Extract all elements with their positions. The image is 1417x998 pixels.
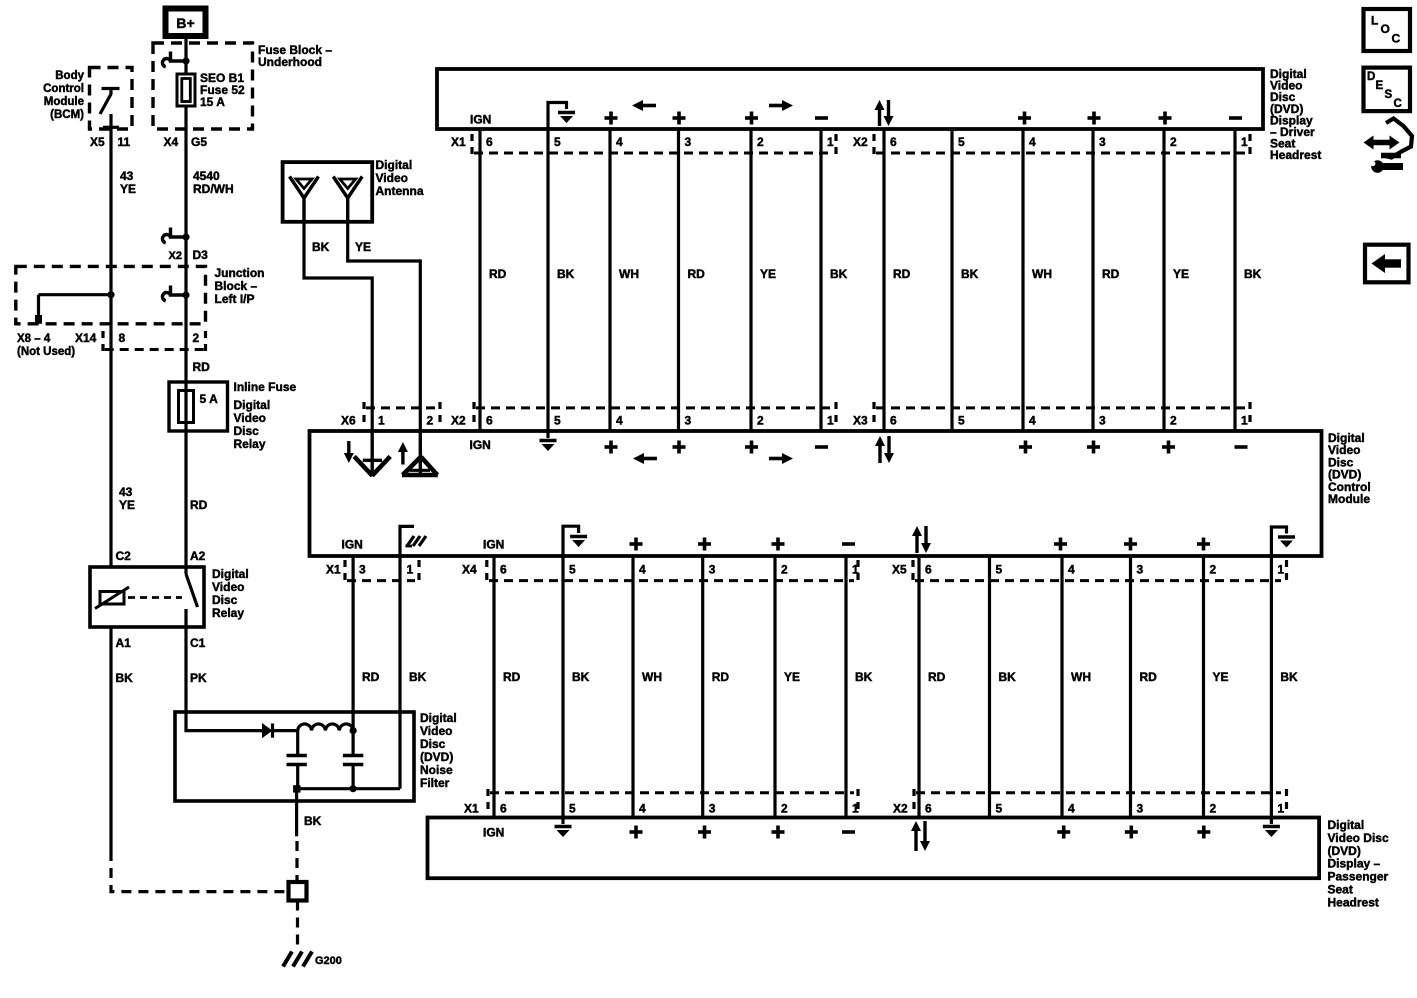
svg-text:(Not Used): (Not Used) (17, 346, 75, 358)
relay switch contact blade (186, 567, 198, 627)
svg-text:A1: A1 (116, 636, 132, 650)
svg-text:5 A: 5 A (200, 392, 219, 406)
in-line connector hook inside fuse block (162, 52, 189, 67)
svg-text:6: 6 (486, 414, 493, 428)
passenger display connector X2 dashed line (916, 791, 1281, 794)
svg-text:PK: PK (190, 671, 207, 685)
svg-text:RD: RD (893, 267, 911, 281)
svg-text:X3: X3 (853, 414, 868, 428)
junction block label (215, 266, 265, 306)
svg-text:YE: YE (1213, 670, 1229, 684)
svg-text:Filter: Filter (420, 776, 450, 790)
wire BK noise filter output (295, 789, 298, 837)
svg-text:YE: YE (1173, 267, 1189, 281)
svg-text:Disc: Disc (420, 737, 446, 751)
svg-text:RD: RD (193, 360, 211, 374)
svg-text:Module: Module (44, 96, 84, 108)
junction dot on rail (350, 785, 357, 792)
LOC icon box (1364, 9, 1411, 51)
svg-text:E: E (1376, 80, 1384, 92)
svg-text:(DVD): (DVD) (420, 750, 453, 764)
svg-text:5: 5 (958, 135, 965, 149)
relay pin labels A1 C1 (116, 636, 206, 650)
svg-text:1: 1 (827, 135, 834, 149)
svg-text:Inline Fuse: Inline Fuse (234, 380, 297, 394)
svg-text:4: 4 (616, 135, 623, 149)
svg-text:X1: X1 (326, 563, 341, 577)
noise filter label (420, 711, 457, 790)
wire RD module X1-3 to noise filter (352, 556, 355, 731)
svg-text:Body: Body (55, 70, 84, 82)
ground symbol in passenger display X1-5 (555, 818, 572, 838)
svg-text:X4: X4 (462, 563, 477, 577)
svg-text:BK: BK (304, 814, 322, 828)
svg-text:5: 5 (569, 563, 576, 577)
relay coil to contact dashed link (128, 596, 182, 599)
svg-text:BK: BK (961, 267, 979, 281)
svg-text:X5: X5 (90, 135, 105, 149)
ground symbol module bottom X5-1 (1271, 527, 1295, 556)
ground G200 (283, 952, 312, 967)
svg-text:2: 2 (1170, 414, 1177, 428)
control module connector X5 dashed line (915, 579, 1281, 582)
svg-text:Digital: Digital (212, 567, 249, 581)
ground symbol in driver display (548, 103, 575, 130)
svg-text:BK: BK (1280, 670, 1298, 684)
ground symbol in passenger display X2-1 (1263, 818, 1280, 838)
digital video disc relay box (90, 567, 204, 627)
svg-text:43: 43 (119, 485, 133, 499)
svg-text:1: 1 (407, 563, 414, 577)
svg-text:3: 3 (1137, 802, 1144, 816)
switch inside BCM (100, 89, 120, 128)
capacitor 2 in noise filter (343, 731, 363, 789)
svg-text:RD: RD (712, 670, 730, 684)
svg-text:Seat: Seat (1328, 883, 1353, 897)
passenger display connector X2 labels (893, 789, 1287, 816)
svg-text:2: 2 (427, 414, 434, 428)
svg-text:C: C (1394, 98, 1402, 110)
relay coil (95, 587, 129, 609)
in-line connector hook inside junction block (162, 286, 189, 301)
svg-text:(DVD): (DVD) (1328, 844, 1361, 858)
svg-text:5: 5 (569, 802, 576, 816)
digital video disc display driver seat headrest box (437, 69, 1263, 129)
svg-text:6: 6 (486, 135, 493, 149)
noise filter ground rail (297, 787, 400, 790)
control module connector X2 dashed line (476, 406, 832, 409)
svg-text:Disc: Disc (212, 593, 238, 607)
plus minus symbols in driver display X2 (1018, 112, 1242, 125)
svg-text:Digital: Digital (1328, 818, 1365, 832)
control module connector X3 dashed line (876, 406, 1246, 409)
in-line connector X2 D3 (162, 228, 189, 243)
svg-text:G5: G5 (191, 135, 207, 149)
svg-text:C: C (1392, 32, 1401, 46)
svg-text:3: 3 (685, 414, 692, 428)
svg-text:YE: YE (760, 267, 776, 281)
svg-text:5: 5 (554, 414, 561, 428)
svg-text:X2: X2 (451, 414, 466, 428)
svg-text:6: 6 (890, 414, 897, 428)
driver display connector X2 labels (853, 134, 1250, 154)
svg-text:3: 3 (1137, 563, 1144, 577)
junction block left I/P dashed box (16, 266, 206, 323)
svg-text:4: 4 (1068, 563, 1075, 577)
svg-text:3: 3 (359, 563, 366, 577)
svg-text:Headrest: Headrest (1270, 148, 1321, 162)
svg-text:Relay: Relay (212, 606, 244, 620)
svg-text:C1: C1 (190, 636, 206, 650)
svg-text:BK: BK (409, 670, 427, 684)
control module connector X6 labels (341, 402, 440, 428)
svg-text:1: 1 (1241, 135, 1248, 149)
wires driver display to control module (480, 129, 1235, 431)
relay label (212, 567, 249, 620)
svg-text:4: 4 (639, 802, 646, 816)
wire BK from relay A1 down (109, 627, 112, 851)
svg-text:IGN: IGN (470, 438, 491, 452)
B+ battery feed box (166, 9, 206, 37)
digital video antenna box (283, 162, 373, 222)
svg-text:RD/WH: RD/WH (193, 182, 234, 196)
svg-text:X2: X2 (893, 802, 908, 816)
svg-text:O: O (1381, 22, 1390, 36)
passenger seat headrest display label (1328, 818, 1389, 909)
plus minus symbols in driver display X1 (605, 112, 829, 125)
svg-text:6: 6 (925, 563, 932, 577)
svg-text:5: 5 (996, 563, 1003, 577)
svg-text:X2: X2 (853, 135, 868, 149)
svg-text:15 A: 15 A (200, 95, 225, 109)
inline fuse 5A digital video disc relay box (169, 382, 228, 431)
plus symbols passenger display X2 (1057, 826, 1210, 839)
svg-text:4540: 4540 (193, 169, 220, 183)
dashed wire BK to splice square (295, 841, 298, 882)
inline fuse label (234, 380, 297, 451)
svg-text:Block –: Block – (215, 279, 258, 293)
svg-text:3: 3 (709, 802, 716, 816)
svg-text:6: 6 (925, 802, 932, 816)
plus minus symbols passenger display X1 (630, 826, 856, 839)
svg-text:1: 1 (1241, 414, 1248, 428)
svg-text:RD: RD (362, 670, 380, 684)
svg-text:Antenna: Antenna (376, 184, 424, 198)
svg-text:RD: RD (190, 498, 208, 512)
svg-text:1: 1 (827, 414, 834, 428)
plus minus symbols module top X2 (605, 441, 829, 454)
svg-text:YE: YE (119, 498, 135, 512)
svg-text:RD: RD (1102, 267, 1120, 281)
svg-text:BK: BK (572, 670, 590, 684)
control module connector X2 labels (451, 402, 836, 428)
svg-text:BK: BK (1244, 267, 1262, 281)
control module connector X4 labels (462, 560, 859, 580)
right arrow module top (769, 453, 793, 464)
svg-text:RD: RD (928, 670, 946, 684)
fuse SEO B1 value label (200, 71, 245, 109)
wire label 43 YE lower (119, 485, 135, 512)
relay pin labels C2 A2 (116, 549, 206, 563)
svg-text:4: 4 (1029, 414, 1036, 428)
svg-text:Passenger: Passenger (1328, 870, 1389, 884)
svg-text:RD: RD (489, 267, 507, 281)
svg-text:D3: D3 (193, 248, 209, 262)
wire YE antenna to module X6-2 (348, 222, 421, 431)
control module connector X1 labels (326, 560, 419, 580)
svg-text:RD: RD (1140, 670, 1158, 684)
svg-text:2: 2 (757, 135, 764, 149)
svg-text:BK: BK (855, 670, 873, 684)
svg-text:Video: Video (376, 171, 408, 185)
svg-text:WH: WH (619, 267, 639, 281)
svg-text:2: 2 (757, 414, 764, 428)
svg-text:YE: YE (784, 670, 800, 684)
back arrow icon box (1365, 245, 1409, 283)
svg-text:2: 2 (781, 802, 788, 816)
svg-text:IGN: IGN (483, 826, 504, 840)
driver display connector X1 dashed line (474, 152, 832, 155)
junction dot inductor to RD wire (350, 727, 357, 734)
svg-text:X4: X4 (164, 135, 179, 149)
digital video disc DVD noise filter box (175, 712, 414, 801)
svg-text:X6: X6 (341, 414, 356, 428)
wire 43 YE from BCM down to relay C2 (109, 114, 112, 567)
svg-text:WH: WH (1032, 267, 1052, 281)
wire PK from relay C1 into noise filter (186, 627, 262, 731)
svg-text:Control: Control (43, 83, 84, 95)
svg-text:3: 3 (685, 135, 692, 149)
fuse SEO B1 Fuse 52 15 A (177, 74, 195, 106)
svg-text:Relay: Relay (234, 437, 266, 451)
svg-text:D: D (1367, 71, 1375, 83)
capacitor 1 in noise filter (287, 731, 307, 789)
svg-text:Digital: Digital (234, 398, 271, 412)
up down arrows passenger display (911, 821, 930, 851)
svg-text:BK: BK (999, 670, 1017, 684)
junction block connector dashed line (103, 331, 206, 351)
svg-text:4: 4 (616, 414, 623, 428)
BCM label (43, 70, 84, 121)
svg-text:Headrest: Headrest (1328, 895, 1379, 909)
svg-text:11: 11 (118, 135, 131, 149)
chassis ground symbol module bottom (400, 526, 426, 556)
svg-text:X8 – 4: X8 – 4 (17, 333, 51, 345)
junction square on rail (293, 785, 300, 792)
svg-text:A2: A2 (190, 549, 206, 563)
svg-text:Display –: Display – (1328, 857, 1381, 871)
right arrow in driver display (769, 100, 793, 111)
wire 4540 RD/WH from fuse down to relay A2 (184, 106, 187, 567)
svg-text:BK: BK (830, 267, 848, 281)
svg-text:1: 1 (378, 414, 385, 428)
passenger display connector X1 labels (464, 789, 859, 816)
branch wire to X8-4 not used (39, 295, 112, 324)
svg-text:Disc: Disc (234, 424, 260, 438)
up down arrows module top (875, 436, 894, 463)
ground symbol in module top (540, 431, 557, 451)
svg-text:YE: YE (120, 182, 136, 196)
wire color labels lower harness (362, 670, 1298, 684)
junction dot on 43 YE wire (107, 291, 114, 298)
svg-text:1: 1 (1277, 563, 1284, 577)
svg-text:Digital: Digital (420, 711, 457, 725)
svg-text:Underhood: Underhood (258, 55, 322, 69)
svg-text:Module: Module (1328, 492, 1370, 506)
antenna label (376, 158, 424, 198)
svg-text:RD: RD (688, 267, 706, 281)
antenna output up arrow and triangle in module (398, 431, 438, 475)
svg-text:Left I/P: Left I/P (215, 292, 255, 306)
diode in noise filter (262, 723, 298, 738)
svg-text:6: 6 (500, 563, 507, 577)
svg-text:Video Disc: Video Disc (1328, 831, 1389, 845)
svg-text:3: 3 (709, 563, 716, 577)
svg-text:4: 4 (1068, 802, 1075, 816)
digital video disc display passenger seat headrest box (428, 818, 1320, 879)
DESC icon box (1364, 68, 1411, 112)
driver seat headrest display label (1270, 67, 1321, 162)
svg-text:Digital: Digital (376, 158, 413, 172)
svg-text:X5: X5 (892, 563, 907, 577)
svg-text:2: 2 (1170, 135, 1177, 149)
control module connector X6 dashed line (366, 406, 436, 409)
svg-text:4: 4 (639, 563, 646, 577)
svg-text:C2: C2 (116, 549, 132, 563)
svg-text:L: L (1371, 14, 1378, 28)
left arrow module top (633, 453, 657, 464)
svg-text:X2: X2 (169, 250, 182, 262)
wire label 43 YE upper (120, 169, 136, 196)
svg-text:1: 1 (1277, 802, 1284, 816)
dashed wire BK to splice (111, 851, 286, 892)
fuse block underhood dashed box (153, 43, 253, 129)
svg-text:IGN: IGN (470, 113, 491, 127)
svg-text:43: 43 (120, 169, 134, 183)
svg-text:(BCM): (BCM) (50, 109, 84, 121)
wire BK antenna to module X6-1 (304, 222, 372, 431)
left arrow in driver display (632, 100, 656, 111)
wire labels BK YE antenna leads (312, 240, 371, 254)
svg-text:IGN: IGN (483, 538, 504, 552)
svg-text:4: 4 (1029, 135, 1036, 149)
control module connector X1 dashed line (347, 579, 415, 582)
svg-text:2: 2 (1210, 802, 1217, 816)
antenna input down arrow and funnel in module (344, 431, 390, 476)
plus minus symbols module bottom X4 (630, 538, 856, 551)
plus symbols module bottom X5 (1054, 538, 1210, 551)
svg-text:2: 2 (1210, 563, 1217, 577)
svg-text:8: 8 (119, 331, 126, 345)
wire label 4540 RD/WH (193, 169, 234, 196)
plus minus symbols module top X3 (1019, 441, 1248, 454)
wire B+ to fuse SEO B1 (184, 35, 187, 74)
svg-text:Video: Video (420, 724, 452, 738)
svg-text:G200: G200 (315, 955, 342, 967)
svg-text:B+: B+ (176, 15, 194, 31)
svg-text:5: 5 (958, 414, 965, 428)
wire color labels upper harness (489, 267, 1262, 281)
control module connector X4 dashed line (489, 579, 854, 582)
svg-text:Noise: Noise (420, 763, 453, 777)
svg-text:X1: X1 (464, 802, 479, 816)
svg-text:5: 5 (996, 802, 1003, 816)
svg-text:BK: BK (116, 671, 134, 685)
driver display connector X2 dashed line (876, 152, 1246, 155)
svg-text:X14: X14 (75, 331, 97, 345)
passenger display connector X1 dashed line (490, 791, 854, 794)
svg-text:IGN: IGN (342, 538, 363, 552)
svg-text:2: 2 (193, 331, 200, 345)
junction block pin labels X8-4 X14 8 2 (17, 331, 200, 358)
svg-text:2: 2 (781, 563, 788, 577)
svg-text:6: 6 (890, 135, 897, 149)
dashed wire splice to ground (296, 901, 299, 950)
svg-text:BK: BK (312, 240, 330, 254)
svg-text:BK: BK (557, 267, 575, 281)
svg-text:Junction: Junction (215, 266, 265, 280)
svg-text:WH: WH (642, 670, 662, 684)
driver display connector X1 labels (451, 134, 836, 154)
svg-text:S: S (1385, 89, 1393, 101)
svg-text:WH: WH (1071, 670, 1091, 684)
splice square (289, 882, 307, 901)
svg-text:RD: RD (503, 670, 521, 684)
connector labels X5 11 and X4 G5 (90, 135, 207, 149)
connector label X2 D3 (169, 248, 209, 262)
control module connector X5 labels (892, 560, 1287, 580)
antenna element 2 (333, 177, 362, 222)
direction tool icon (1364, 119, 1413, 173)
svg-text:3: 3 (1099, 135, 1106, 149)
control module label (1328, 431, 1371, 506)
wires control module to passenger display (494, 556, 1271, 818)
wire BK module X1-1 to noise filter rail (398, 556, 401, 789)
digital video disc DVD control module box (310, 431, 1322, 556)
ground symbol module bottom X4 (563, 526, 587, 556)
svg-text:3: 3 (1099, 414, 1106, 428)
svg-text:Video: Video (212, 580, 244, 594)
fuse block underhood label (258, 43, 332, 69)
svg-text:Video: Video (234, 411, 266, 425)
up down arrows in driver display (875, 100, 894, 126)
up down arrows module bottom (912, 526, 931, 553)
inductor in noise filter (298, 724, 353, 731)
svg-text:5: 5 (554, 135, 561, 149)
body control module BCM dashed box (90, 68, 133, 130)
wire labels BK PK (116, 671, 208, 685)
svg-text:X1: X1 (451, 135, 466, 149)
svg-text:YE: YE (355, 240, 371, 254)
control module connector X3 labels (853, 402, 1250, 428)
antenna element 1 (290, 177, 319, 222)
svg-text:6: 6 (500, 802, 507, 816)
